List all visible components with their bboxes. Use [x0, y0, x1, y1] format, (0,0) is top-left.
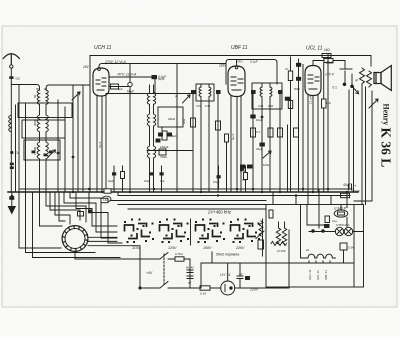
svg-text:60+40: 60+40: [186, 266, 194, 270]
svg-text:125V: 125V: [168, 246, 177, 250]
svg-text:110V: 110V: [132, 246, 141, 250]
svg-text:1kΩ: 1kΩ: [326, 101, 331, 105]
svg-text:1kΩ: 1kΩ: [324, 48, 330, 52]
svg-text:2A: 2A: [306, 248, 309, 252]
svg-text:0.5µF: 0.5µF: [213, 180, 220, 184]
svg-text:UCH 11: UCH 11: [94, 45, 112, 51]
svg-text:Henry: Henry: [382, 104, 391, 126]
svg-text:1kΩ: 1kΩ: [182, 119, 186, 124]
svg-text:220V: 220V: [235, 246, 245, 250]
svg-text:6µ-A: 6µ-A: [231, 134, 235, 140]
svg-text:5000: 5000: [240, 169, 247, 173]
svg-text:10µF: 10µF: [256, 118, 263, 122]
svg-text:0.1A: 0.1A: [200, 292, 206, 296]
svg-text:170V, 12 Vt-A: 170V, 12 Vt-A: [105, 60, 127, 64]
svg-text:20kΩ: 20kΩ: [326, 61, 334, 65]
svg-text:20µF: 20µF: [144, 179, 150, 183]
svg-text:UCL 11: UCL 11: [316, 270, 320, 280]
svg-text:0.1µF: 0.1µF: [250, 60, 258, 64]
svg-text:45µF: 45µF: [170, 134, 177, 138]
svg-text:0.95/0.25A: 0.95/0.25A: [336, 223, 350, 227]
svg-text:150V: 150V: [203, 246, 212, 250]
svg-text:UCL 11: UCL 11: [306, 46, 323, 52]
svg-text:2×125: 2×125: [277, 249, 286, 253]
svg-text:1MΩ: 1MΩ: [263, 163, 269, 167]
svg-text:µF: µF: [188, 281, 192, 285]
svg-text:50Hz перемен.: 50Hz перемен.: [216, 253, 240, 257]
svg-text:40µF: 40µF: [108, 179, 114, 183]
svg-text:0.75A: 0.75A: [175, 252, 183, 256]
svg-text:3µF: 3µF: [160, 179, 165, 183]
svg-text:НЧ: НЧ: [104, 198, 108, 202]
svg-text:12: 12: [239, 272, 243, 276]
svg-text:1.5AF: 1.5AF: [352, 189, 360, 193]
svg-text:RTV, 12Vt-A: RTV, 12Vt-A: [118, 72, 137, 76]
svg-text:дб: дб: [355, 78, 359, 82]
svg-text:Ca: Ca: [16, 76, 20, 80]
svg-text:2V+460 kHz: 2V+460 kHz: [207, 210, 232, 215]
svg-text:2µ0: 2µ0: [118, 87, 123, 91]
svg-text:Cc: Cc: [15, 151, 19, 155]
svg-text:170 V: 170 V: [325, 73, 335, 77]
svg-text:0.33: 0.33: [196, 104, 202, 108]
svg-text:470: 470: [242, 178, 247, 182]
svg-text:5MΩ: 5MΩ: [294, 87, 300, 91]
svg-text:0.35: 0.35: [205, 104, 211, 108]
svg-text:UY 11: UY 11: [220, 272, 231, 277]
svg-text:UBF 11: UBF 11: [231, 45, 248, 51]
svg-text:pF: pF: [175, 94, 178, 98]
svg-text:34µF: 34µF: [256, 147, 263, 151]
svg-text:0.1µ: 0.1µ: [332, 219, 338, 223]
svg-text:50: 50: [33, 94, 37, 98]
svg-text:U 340 P: U 340 P: [334, 207, 347, 211]
svg-text:0.35: 0.35: [268, 104, 274, 108]
svg-text:6µ-A: 6µ-A: [98, 142, 102, 148]
svg-text:40µF: 40µF: [343, 183, 351, 187]
svg-text:30kΩ: 30kΩ: [168, 117, 176, 121]
svg-text:12 mA: 12 mA: [309, 95, 313, 104]
svg-text:0.1: 0.1: [285, 67, 289, 71]
svg-text:+4V: +4V: [146, 271, 153, 275]
svg-text:0.33: 0.33: [258, 104, 264, 108]
svg-text:0.1: 0.1: [333, 86, 338, 90]
svg-text:160µF: 160µF: [160, 145, 169, 149]
svg-text:18V: 18V: [83, 65, 90, 69]
svg-text:64µF: 64µF: [127, 90, 134, 94]
svg-text:220V: 220V: [249, 288, 259, 292]
svg-text:13000: 13000: [33, 146, 37, 155]
svg-text:0.3A: 0.3A: [348, 246, 354, 250]
svg-text:K 36 L: K 36 L: [379, 128, 394, 168]
svg-text:750Ω: 750Ω: [160, 155, 167, 159]
svg-text:0.1: 0.1: [256, 130, 260, 134]
svg-text:UBF 11: UBF 11: [324, 270, 328, 280]
svg-text:3000: 3000: [33, 119, 37, 126]
svg-text:50µF: 50µF: [158, 77, 165, 81]
svg-text:UCH 11: UCH 11: [308, 269, 312, 280]
svg-text:118V: 118V: [219, 64, 227, 68]
